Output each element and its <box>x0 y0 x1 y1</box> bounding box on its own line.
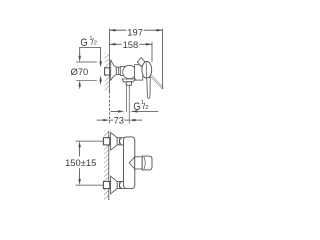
svg-text:2: 2 <box>145 105 148 111</box>
svg-text:Ø70: Ø70 <box>71 66 89 77</box>
svg-text:2: 2 <box>94 41 97 47</box>
svg-text:197: 197 <box>127 26 143 37</box>
svg-text:73: 73 <box>114 115 124 126</box>
svg-text:150±15: 150±15 <box>65 157 96 168</box>
svg-text:158: 158 <box>123 39 139 50</box>
